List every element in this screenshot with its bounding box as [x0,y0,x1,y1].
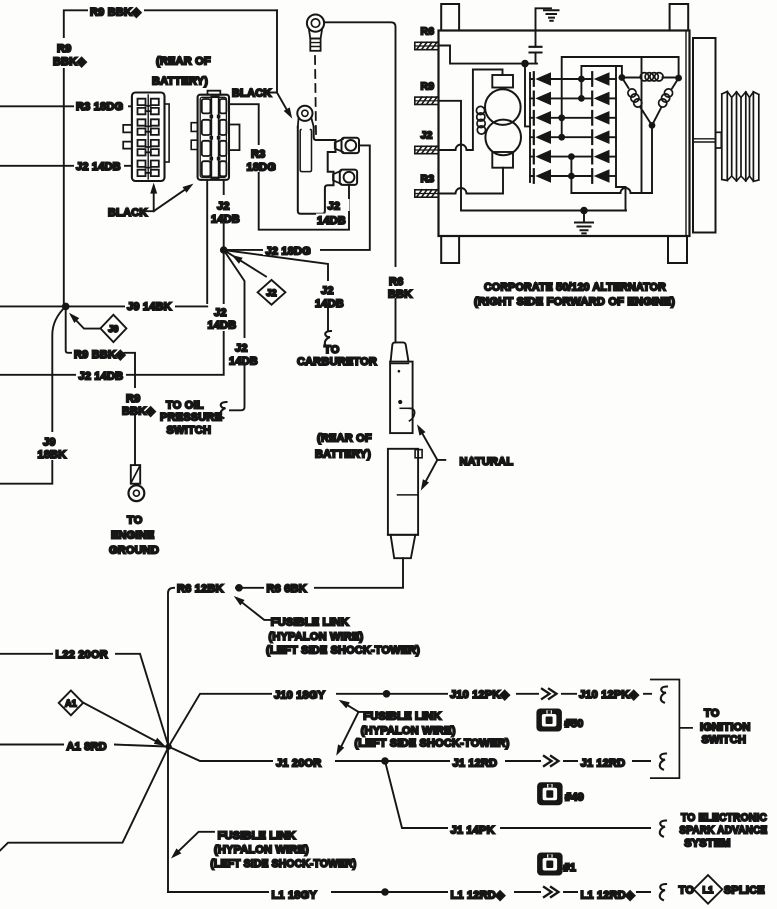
svg-text:L1 12RD◆: L1 12RD◆ [581,889,635,901]
svg-text:J10 18GY: J10 18GY [274,690,326,702]
phase bus A rows3-4 [562,57,679,137]
connector C2 (rear of battery) [198,95,229,180]
wire R9 BBK top horizontal [64,10,277,306]
wire R3 18DG from connector C2 to lower ring terminal [229,104,349,230]
label J2 18DG [263,242,320,255]
wire J2 14DB to oil pressure switch [224,250,245,410]
rectifier diode bridge [529,73,531,182]
lower ring terminal in socket [333,171,341,184]
ground bottom [583,211,585,222]
wire R9 to ground rail [439,101,627,211]
connector C1 (rear of battery) [132,93,165,182]
svg-text:18DG: 18DG [247,161,277,173]
diode D11 [591,150,593,164]
svg-text:IGNITION: IGNITION [700,722,751,734]
svg-text:J2: J2 [328,201,341,213]
svg-text:NATURAL: NATURAL [460,456,514,468]
svg-text:L1: L1 [703,885,714,895]
svg-text:(HYPALON WIRE): (HYPALON WIRE) [214,844,309,856]
fusible link label 2 with arrows [342,702,364,712]
diode D12 [591,169,593,183]
capacitor [530,47,542,53]
stator phase C wire with hop [571,188,652,193]
svg-text:(HYPALON WIRE): (HYPALON WIRE) [269,631,364,643]
wire J2 to brush [439,70,503,151]
wire J2 14DB from junction to left edge [0,250,224,375]
wire L1 [168,891,658,893]
svg-text:CARBURETOR: CARBURETOR [297,356,377,368]
terminal stubs R6 R9 J2 R3 [415,42,439,50]
svg-text:TO: TO [679,884,695,896]
svg-text:R6: R6 [389,276,403,288]
diamond J9 with arrow to junction [72,316,101,329]
svg-text:R9: R9 [421,80,435,92]
svg-text:BATTERY): BATTERY) [152,76,208,88]
svg-text:SWITCH: SWITCH [702,734,747,746]
svg-text:J9 14BK: J9 14BK [127,301,172,313]
svg-text:GROUND: GROUND [109,545,159,557]
svg-text:#50: #50 [565,718,584,730]
wire J1 14PK [385,761,658,828]
svg-text:BATTERY): BATTERY) [315,448,371,460]
ring terminal TO ENGINE GROUND [131,465,140,484]
svg-text:(LEFT SIDE SHOCK-TOWER): (LEFT SIDE SHOCK-TOWER) [355,737,510,749]
svg-text:R6 12BK: R6 12BK [177,583,224,595]
svg-text:FUSIBLE LINK: FUSIBLE LINK [271,616,349,628]
svg-text:J2: J2 [266,288,276,298]
svg-text:R3 18DG: R3 18DG [76,101,123,113]
wire R3 to brush [439,168,504,194]
dashed wire from ring terminal down [315,56,316,134]
svg-text:SPLICE: SPLICE [724,884,765,896]
wire exiting bottom-left [0,747,169,851]
wire J9 18BK down to left edge [0,306,66,483]
svg-text:R3: R3 [421,173,435,185]
diode D2 [533,92,535,106]
wire R6 6BK from connector to junction [168,558,403,892]
diode D10 [591,130,593,144]
stator delta winding [622,77,679,80]
svg-text:R9: R9 [126,393,140,405]
svg-text:SYSTEM: SYSTEM [684,837,730,849]
svg-text:PRESSURE: PRESSURE [160,412,222,424]
wire BLACK drop to ring terminal lug [264,10,277,92]
diamond A1 with arrow [83,703,162,745]
wire J2 14DB to carburetor [224,250,328,331]
svg-text:J2: J2 [235,342,248,354]
svg-text:(REAR OF: (REAR OF [156,56,211,68]
wire J9 14BK vertical from connector C2 [206,180,208,307]
svg-text:A1 8RD: A1 8RD [67,741,107,753]
svg-text:L22 20OR: L22 20OR [56,649,108,661]
svg-text:R6 6BK: R6 6BK [267,583,307,595]
svg-text:TO: TO [324,344,340,356]
svg-text:14DB: 14DB [211,214,240,226]
svg-text:J2: J2 [421,130,433,142]
fusible link label 1 with arrow [237,599,270,620]
svg-text:R6: R6 [421,26,435,38]
svg-text:A1: A1 [65,698,77,708]
svg-text:J2 14DB: J2 14DB [76,161,121,173]
ring terminal (battery eyelet) top [307,15,324,32]
junction dot J2 [220,246,228,254]
alternator body [439,31,690,237]
svg-text:SWITCH: SWITCH [167,425,212,437]
phase bus C rows5-6 [570,157,572,193]
svg-text:(LEFT SIDE SHOCK-TOWER): (LEFT SIDE SHOCK-TOWER) [266,645,420,657]
bulkhead connector icon #1 [537,853,563,876]
diamond J2 [224,250,266,277]
svg-text:14DB: 14DB [208,319,237,331]
alternator mounting lugs [441,4,459,31]
svg-text:ENGINE: ENGINE [111,530,154,542]
svg-text:CORPORATE 50/120 ALTERNATOR: CORPORATE 50/120 ALTERNATOR [484,281,666,293]
svg-text:J9: J9 [108,324,118,334]
svg-text:L1 12RD◆: L1 12RD◆ [451,889,505,901]
upper ring terminal in socket [335,139,343,152]
svg-text:14DB: 14DB [317,215,346,227]
label NATURAL with fork arrows [420,429,446,460]
diode D5 [533,150,535,164]
inline connector lower half [388,449,418,535]
svg-text:14DB: 14DB [229,355,258,367]
phase bus B rows1-2 [581,66,622,98]
svg-text:BLACK: BLACK [232,88,272,100]
svg-text:(RIGHT SIDE FORWARD OF ENGINE): (RIGHT SIDE FORWARD OF ENGINE) [474,296,675,308]
ignition switch bracket [651,680,692,779]
svg-text:J10 12PK◆: J10 12PK◆ [450,689,510,701]
svg-text:FUSIBLE LINK: FUSIBLE LINK [218,830,296,842]
rotor brushes and slip rings [492,75,513,88]
svg-text:J2: J2 [217,201,230,213]
svg-text:BBK: BBK [388,288,412,300]
diode D3 [533,111,535,125]
wire A1 8RD [0,745,169,747]
svg-text:J10 12PK◆: J10 12PK◆ [579,689,639,701]
svg-text:18BK: 18BK [38,449,67,461]
wire J2 18DG from upper ring terminal [228,145,370,250]
svg-text:R9: R9 [57,43,71,55]
svg-text:BBK◆: BBK◆ [122,406,155,418]
diode D6 [533,169,535,183]
svg-text:SPARK ADVANCE: SPARK ADVANCE [679,825,767,837]
diode D8 [591,92,593,106]
svg-text:R3: R3 [251,149,265,161]
wire J2 14DB from connector C2 to junction [223,180,225,250]
svg-text:J1 14PK: J1 14PK [451,824,495,836]
svg-text:J2: J2 [321,285,334,297]
wire R3 18DG from left edge [0,105,132,107]
svg-text:(REAR OF: (REAR OF [317,432,372,444]
diode D7 [591,72,593,86]
convergence node [165,743,171,749]
svg-text:TO: TO [704,707,720,719]
ground bus right [616,66,626,211]
svg-text:TO: TO [127,515,143,527]
bulkhead connector icon #50 [536,709,562,732]
diode D9 [591,111,593,125]
diode D4 [533,130,535,144]
svg-text:(LEFT SIDE SHOCK-TOWER): (LEFT SIDE SHOCK-TOWER) [210,858,356,870]
svg-text:#1: #1 [563,862,576,874]
svg-text:J2 18DG: J2 18DG [266,245,311,257]
svg-text:L1 18GY: L1 18GY [272,889,318,901]
svg-text:TO OIL: TO OIL [166,400,204,412]
svg-text:BBK◆: BBK◆ [53,56,86,68]
rotor field coil [476,106,484,114]
fusible link holder component [297,106,312,121]
wire R6 to capacitor junction [439,46,538,64]
fork to J10 and J1 [169,694,658,747]
svg-text:TO ELECTRONIC: TO ELECTRONIC [681,812,767,824]
svg-text:#49: #49 [565,792,584,804]
svg-text:J1 12RD: J1 12RD [581,757,626,769]
wire L22 20OR [0,654,169,747]
svg-text:J9: J9 [43,437,56,449]
svg-text:J2: J2 [214,307,227,319]
fusible link label 3 with arrow [174,832,214,856]
svg-text:(HYPALON WIRE): (HYPALON WIRE) [361,725,456,737]
ground top [536,8,552,47]
svg-text:J1 12RD: J1 12RD [453,757,498,769]
junction dot R6 [235,584,243,592]
wire from ring terminal to R6 BBK drop [324,22,395,342]
svg-text:R9 BBK◆: R9 BBK◆ [90,6,141,18]
svg-text:J2 14DB: J2 14DB [79,370,124,382]
svg-text:R9 BBK◆: R9 BBK◆ [74,349,125,361]
wire J2 14DB from left edge [0,165,132,167]
bulkhead connector icon #49 [537,782,563,805]
alternator rear housing [693,38,716,233]
svg-text:14DB: 14DB [315,298,344,310]
diode D1 [533,72,535,86]
alternator pulley [722,92,759,182]
svg-text:BLACK: BLACK [108,207,148,219]
wire R9 BBK to engine ground [66,306,74,352]
svg-text:FUSIBLE LINK: FUSIBLE LINK [363,711,441,723]
inline connector upper half [391,342,409,361]
svg-text:J1 20OR: J1 20OR [276,757,321,769]
wire J9 14BK horizontal [0,305,207,307]
junction dot J9 [62,303,70,311]
